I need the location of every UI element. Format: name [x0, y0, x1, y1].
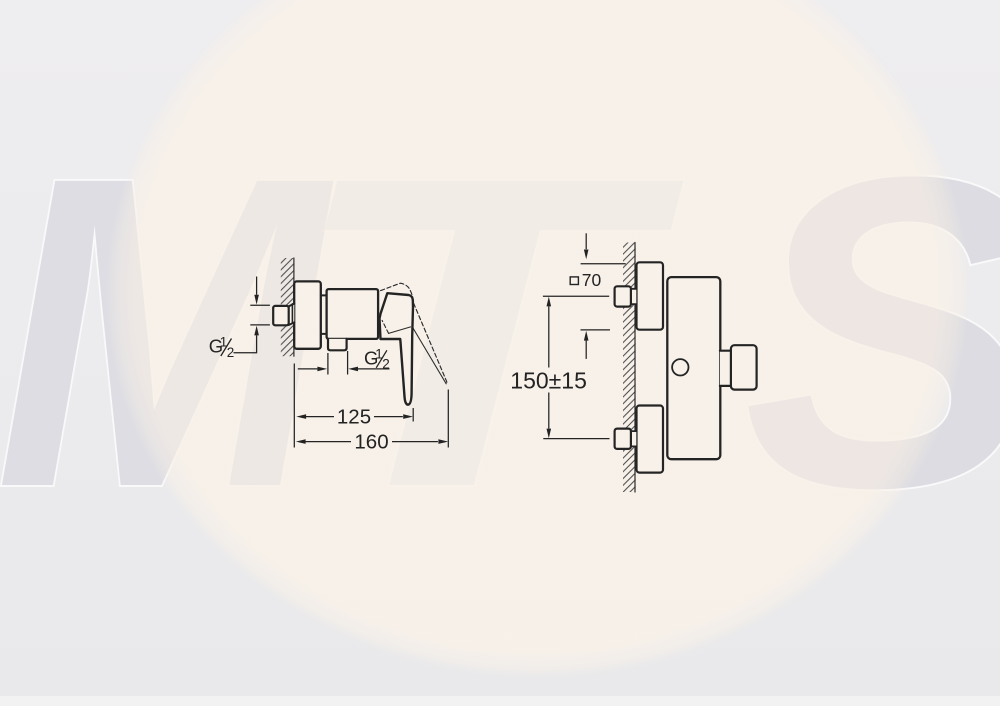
svg-text:2: 2 [227, 345, 235, 360]
handle alternate position grip upper edge (dashed) [414, 303, 447, 383]
wall hatching (left view) [281, 258, 295, 356]
label G1/2 middle [364, 346, 390, 371]
arrowhead up (150 top) [547, 297, 552, 307]
inlet square nipple [273, 306, 289, 325]
bottom union nut [615, 429, 631, 449]
rosette top extension [581, 263, 626, 265]
handle lever (solid) [380, 293, 414, 405]
arrowhead up (rosette bottom) [584, 331, 589, 341]
arrowhead left (outlet right) [348, 367, 358, 372]
arrowhead down (rosette top) [584, 250, 589, 260]
extension tick bottom [250, 324, 270, 326]
bottom artifact band [0, 696, 1000, 706]
top mounting rosette [637, 262, 664, 329]
escutcheon plate [294, 281, 321, 348]
125 dim line [306, 416, 403, 418]
svg-text:2: 2 [382, 357, 390, 372]
handle inner seam [389, 327, 411, 334]
handle tip extension [412, 408, 414, 422]
svg-text:150±15: 150±15 [510, 367, 587, 393]
outlet extension lines [328, 351, 348, 375]
arrowhead left (125) [296, 414, 306, 419]
svg-text:S: S [743, 85, 1000, 579]
cartridge screw circle [672, 359, 688, 375]
wall face line (right view) [634, 243, 636, 493]
svg-text:125: 125 [337, 405, 371, 428]
G1/2 vertical dim shaft top [256, 277, 258, 295]
G1/2 vertical dim shaft bottom + leader [234, 335, 257, 352]
neck between plate and body [321, 295, 327, 334]
arrowhead left (160) [296, 439, 306, 444]
top union nut [615, 286, 631, 306]
top union stub [631, 289, 636, 304]
rosette bottom extension [581, 329, 611, 331]
main body (left view) [327, 289, 379, 339]
bottom union stub [631, 431, 636, 446]
150 bottom extension [543, 438, 609, 440]
160 dim line [306, 441, 438, 443]
arrowhead right (outlet left) [317, 367, 327, 372]
svg-text:70: 70 [582, 270, 602, 290]
outlet dim line right [358, 368, 390, 370]
wall face extension line [293, 364, 295, 448]
arrowhead right (125) [403, 414, 413, 419]
dashed tip extension [447, 390, 449, 448]
top arrow shaft [585, 233, 587, 249]
square symbol for 70 [570, 277, 578, 285]
arrowhead down (G1/2 top) [254, 295, 259, 305]
inlet taper to wall [289, 304, 295, 325]
arrowhead down (150 bottom) [547, 429, 552, 439]
outlet dim line left [298, 368, 318, 370]
main body (right view) [667, 277, 720, 459]
arrowhead right (160) [438, 439, 448, 444]
wall hatching (right view) [623, 243, 636, 493]
bottom mounting rosette [637, 406, 664, 473]
inlet flange face [291, 304, 293, 323]
up arrow shaft [585, 341, 587, 359]
wall face line (left view) [293, 258, 295, 356]
knob head [731, 345, 757, 389]
150 dim shafts [548, 306, 550, 428]
handle alternate position cap (dashed arc) [381, 283, 414, 303]
handle alternate position grip lower edge (thin) [412, 327, 446, 384]
handle alternate underside step (dashed) [382, 320, 389, 333]
arrowhead up (G1/2 bottom) [254, 326, 259, 336]
extension tick top [250, 304, 270, 306]
svg-text:160: 160 [354, 430, 388, 453]
150 top extension [543, 295, 609, 297]
label G1/2 left [209, 335, 235, 361]
knob neck [720, 351, 731, 386]
outlet stub below body [328, 339, 347, 350]
